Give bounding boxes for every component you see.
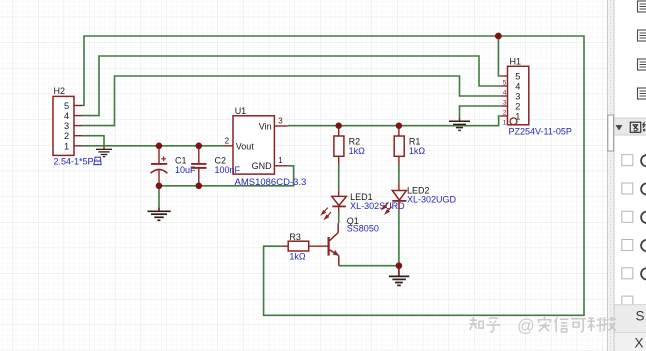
- CJK 母 glyph approx: [94, 157, 101, 165]
- svg-text:2: 2: [64, 131, 69, 141]
- wire H2.2 -> ground: [81, 136, 104, 147]
- svg-text:R3: R3: [289, 232, 301, 242]
- capacitor C1 10uF polarized: [151, 146, 196, 186]
- wire R2 to LED1: [338, 165, 340, 191]
- svg-text:3: 3: [503, 100, 507, 107]
- node Vout at C2: [196, 143, 203, 150]
- ground (H1 pin2): [449, 119, 470, 131]
- wire H1.2 -> ground: [460, 106, 501, 119]
- pin number digits: [503, 80, 507, 127]
- svg-text:XL-302UGD: XL-302UGD: [407, 194, 457, 204]
- top icon rows: [638, 1, 646, 99]
- svg-text:4: 4: [64, 111, 69, 121]
- svg-text:Vout: Vout: [236, 142, 255, 152]
- checkbox rows: [622, 155, 633, 307]
- wire H2.3 -> rail3 -> H1 pin3: [81, 76, 501, 126]
- 科: [588, 318, 603, 332]
- wire junction drop to H1 pin5: [498, 36, 500, 76]
- wire LED1 to Q1 collector: [338, 213, 340, 224]
- LED2 XL-302UGD: [382, 182, 456, 213]
- 纸 glyph partial: [643, 122, 646, 131]
- svg-text:Vin: Vin: [259, 122, 272, 132]
- capacitor C2 100nF: [191, 146, 240, 186]
- svg-text:H2: H2: [54, 86, 66, 96]
- 图 glyph: [630, 122, 641, 132]
- scrollbar thumb: [608, 115, 614, 151]
- svg-text:3: 3: [64, 121, 69, 131]
- resistor R2 1k: [334, 126, 365, 165]
- svg-text:C2: C2: [215, 156, 227, 166]
- node gnd at C1: [156, 183, 163, 190]
- svg-text:2: 2: [225, 136, 230, 145]
- svg-text:1kΩ: 1kΩ: [289, 252, 306, 262]
- node emitter gnd: [396, 262, 403, 269]
- svg-text:U1: U1: [235, 106, 247, 116]
- wire Vout net H2.1 -> C1 -> C2 -> U1 Vout: [81, 145, 224, 147]
- pin 2 Vout stub: [224, 145, 234, 147]
- node Vin at R1: [396, 123, 402, 129]
- svg-text:4: 4: [515, 82, 520, 92]
- svg-text:5: 5: [515, 72, 520, 82]
- op-amp U1 AMS1086CD-3.3: [224, 106, 307, 188]
- resistor R3 1k: [281, 232, 327, 262]
- svg-text:2: 2: [515, 102, 520, 112]
- svg-text:AMS1086CD-3.3: AMS1086CD-3.3: [235, 177, 307, 188]
- svg-text:SS8050: SS8050: [347, 224, 379, 234]
- 信: [555, 317, 569, 332]
- pin 1 GND stub: [274, 165, 287, 167]
- transistor Q1 SS8050: [329, 216, 379, 266]
- ground (H2 pin2): [96, 146, 112, 157]
- svg-text:H1: H1: [510, 56, 522, 66]
- wire Q1 emitter to junction: [339, 265, 399, 267]
- svg-text:4: 4: [503, 90, 507, 97]
- pin 3 Vin stub: [274, 125, 287, 127]
- svg-text:1: 1: [278, 156, 283, 165]
- wire R1 to LED2: [398, 165, 400, 183]
- svg-text:GND: GND: [252, 161, 273, 171]
- connector H2: [53, 86, 101, 167]
- 安: [538, 317, 552, 332]
- wire U1 GND -> gnd rail: [159, 166, 294, 208]
- wire LED2 to gnd junction: [398, 210, 400, 266]
- LED1 XL-302SURD: [322, 190, 406, 219]
- svg-text:1: 1: [64, 141, 69, 151]
- ground (Q1 emitter / LED2): [389, 266, 409, 286]
- node gnd at C2: [196, 183, 203, 190]
- svg-text:XL-302SURD: XL-302SURD: [350, 201, 405, 211]
- wire H2.4 -> rail2 -> H1 pin4: [81, 56, 501, 116]
- connector H1: [501, 56, 572, 136]
- svg-text:C1: C1: [175, 156, 187, 166]
- pin1 circle marker: [510, 118, 517, 125]
- svg-text:1kΩ: 1kΩ: [409, 146, 426, 156]
- svg-text:5: 5: [503, 80, 507, 87]
- 可: [571, 319, 586, 332]
- wire Vin net U1.3 -> R2 -> R1 -> H1 pin1: [288, 116, 501, 126]
- bottom bands: [615, 305, 646, 333]
- svg-text:5: 5: [64, 101, 69, 111]
- resistor R1 1k: [394, 126, 425, 165]
- 知: [470, 317, 484, 330]
- svg-text:2.54-1*5P: 2.54-1*5P: [54, 157, 94, 167]
- svg-text:3: 3: [515, 92, 520, 102]
- node Vout at C1: [156, 143, 163, 150]
- svg-text:3: 3: [278, 116, 283, 125]
- 乎: [487, 318, 501, 332]
- svg-text:PZ254V-11-05P: PZ254V-11-05P: [509, 126, 572, 136]
- svg-text:10uF: 10uF: [175, 165, 196, 175]
- ring icons: [641, 155, 646, 279]
- wire net1 H2.5 -> top rail -> right side -> bottom rail -> R3 left: [81, 36, 584, 315]
- svg-text:2: 2: [503, 110, 507, 117]
- 技: [603, 317, 617, 331]
- svg-text:X: X: [635, 336, 644, 351]
- svg-text:@: @: [517, 316, 535, 336]
- svg-text:100nF: 100nF: [215, 165, 241, 175]
- svg-text:S: S: [636, 309, 645, 324]
- tab row: [615, 118, 646, 135]
- svg-text:1kΩ: 1kΩ: [349, 146, 366, 156]
- dotted scrollbar texture: [610, 0, 612, 351]
- ground (C1 bottom): [148, 208, 171, 221]
- node top rail junction: [495, 33, 502, 40]
- svg-text:1: 1: [503, 120, 507, 127]
- node Vin at R2: [336, 123, 342, 129]
